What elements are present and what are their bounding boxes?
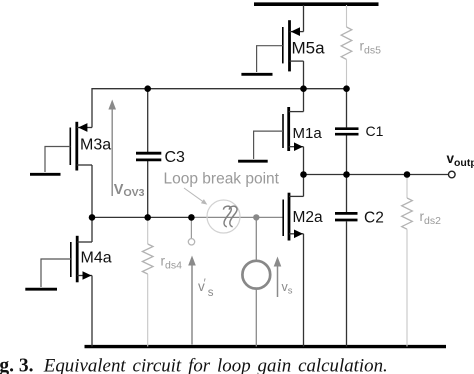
M4a gate ground bbox=[25, 288, 57, 291]
svg-text:Equivalent circuit for loop ga: Equivalent circuit for loop gain calcula… bbox=[43, 356, 388, 374]
wire: left branch vertical x=92 bbox=[92, 89, 148, 347]
svg-text:M1a: M1a bbox=[293, 125, 323, 142]
resistor r_ds2 bbox=[402, 175, 413, 347]
wire: node row gray segment to M2a gate bbox=[191, 216, 283, 218]
resistor r_ds5 bbox=[341, 5, 352, 89]
M5a gate ground bbox=[241, 73, 272, 76]
M1a gate wire bbox=[254, 131, 283, 159]
svg-text:M4a: M4a bbox=[81, 250, 112, 267]
capacitor C1 bbox=[335, 129, 359, 135]
svg-text:s: s bbox=[208, 287, 214, 299]
v's label bbox=[198, 278, 214, 299]
loop break point source bbox=[207, 200, 240, 233]
vs source circle bbox=[242, 217, 270, 346]
output terminal bbox=[449, 171, 456, 178]
junction top C3 bbox=[144, 85, 151, 92]
v's arrow bbox=[188, 256, 196, 345]
svg-text:M3a: M3a bbox=[80, 137, 111, 154]
loop break point label bbox=[164, 170, 280, 187]
wire: top horizontal net y=88.7 bbox=[148, 88, 347, 90]
power rail VDD (top) bbox=[254, 2, 379, 6]
wire: output row y=174.5 bbox=[304, 174, 449, 176]
M4a gate wire bbox=[41, 259, 71, 287]
junction node row C3 bbox=[144, 214, 151, 221]
transistor M3a bbox=[70, 122, 92, 171]
transistor M4a bbox=[71, 236, 92, 282]
M3a gate wire bbox=[45, 147, 70, 173]
M1a label bbox=[293, 125, 323, 142]
M3a gate ground bbox=[30, 173, 61, 176]
M1a gate ground bbox=[238, 160, 268, 163]
transistor M5a bbox=[283, 20, 304, 71]
svg-text:C3: C3 bbox=[165, 149, 186, 166]
transistor M1a bbox=[283, 107, 304, 151]
svg-text:′: ′ bbox=[204, 278, 206, 290]
v's stub terminal bbox=[188, 217, 194, 245]
r_ds2 label bbox=[420, 209, 442, 227]
junction node row vs (gray) bbox=[253, 214, 259, 220]
M5a gate wire bbox=[257, 46, 283, 72]
V_OV3 label bbox=[114, 182, 145, 199]
v_outp label bbox=[447, 151, 474, 169]
transistor M2a bbox=[283, 193, 303, 241]
capacitor C3 bbox=[136, 153, 161, 160]
C1 label bbox=[366, 123, 384, 139]
M5a label bbox=[292, 39, 326, 58]
svg-text:M5a: M5a bbox=[292, 39, 326, 58]
junction node row left bbox=[89, 214, 96, 221]
wire: node row black segment y=217.4 bbox=[92, 216, 191, 218]
C3 label bbox=[165, 149, 186, 166]
v_s label bbox=[282, 280, 293, 297]
V_OV3 arrow bbox=[108, 100, 116, 197]
figure caption bbox=[0, 356, 388, 374]
svg-text:Fig. 3.: Fig. 3. bbox=[0, 356, 34, 374]
junction output rds2 bbox=[404, 171, 411, 178]
junction output C1 bbox=[343, 171, 350, 178]
M3a label bbox=[80, 137, 111, 154]
ground rail (bottom) bbox=[85, 345, 447, 348]
junction node row v's bbox=[188, 214, 195, 221]
M4a label bbox=[81, 250, 112, 267]
capacitor C2 bbox=[335, 213, 358, 220]
v_s arrow bbox=[274, 257, 282, 298]
svg-text:C1: C1 bbox=[366, 123, 384, 139]
r_ds4 label bbox=[161, 254, 183, 272]
r_ds5 label bbox=[360, 38, 382, 56]
junction top M5a bbox=[300, 85, 307, 92]
resistor r_ds4 bbox=[142, 217, 153, 346]
wire: M5a/M1a/M2a drain-source vertical x=303.5 bbox=[303, 5, 305, 347]
M2a label bbox=[293, 209, 324, 226]
junction output M1a bbox=[300, 171, 307, 178]
wire: C1/C2 branch vertical x=346.5 bbox=[346, 89, 348, 347]
svg-text:Loop break point: Loop break point bbox=[164, 170, 280, 187]
loop break point leader arrow bbox=[184, 188, 207, 205]
wire: C3 branch vertical x=147.7 bbox=[147, 89, 149, 218]
junction top rds5 bbox=[343, 85, 350, 92]
svg-text:C2: C2 bbox=[364, 210, 384, 227]
svg-text:M2a: M2a bbox=[293, 209, 324, 226]
C2 label bbox=[364, 210, 384, 227]
